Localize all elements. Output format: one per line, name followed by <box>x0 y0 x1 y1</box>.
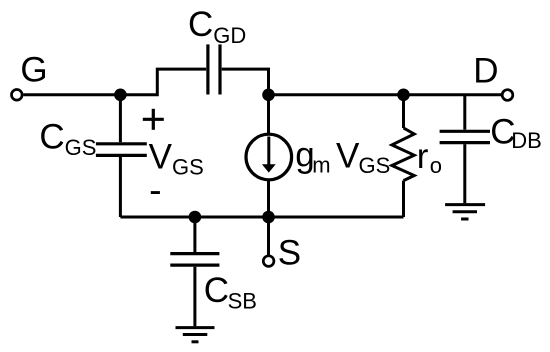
wire: C_GS to bottom rail <box>119 157 122 217</box>
node: source right (S tap) <box>262 211 275 224</box>
wire: current source bottom stub <box>267 180 270 217</box>
current source U1 circle <box>246 134 292 180</box>
node: drain right (resistor top) <box>397 89 410 102</box>
terminal G <box>11 90 22 101</box>
ground (below C_DB) <box>445 205 485 219</box>
svg-text:G: G <box>20 50 47 89</box>
ground (below C_SB) <box>176 328 215 342</box>
node: gate <box>114 89 127 102</box>
polarity minus <box>151 191 160 194</box>
svg-text:D: D <box>473 52 498 91</box>
capacitor C_DB <box>440 131 490 142</box>
wire: C_GD right plate down to drain rail <box>222 69 269 95</box>
capacitor C_GS <box>96 144 147 156</box>
terminal S <box>263 256 274 267</box>
wire: C_SB to ground <box>193 267 196 327</box>
wire drain rail: node to terminal D <box>269 93 503 96</box>
wire: C_SB top stub <box>193 217 196 252</box>
node: source left (C_SB tap) <box>189 211 202 224</box>
wire: gate node down to C_GS <box>119 95 122 142</box>
wire: C_DB to ground <box>463 144 466 203</box>
wire: current source top stub <box>267 95 270 135</box>
wire bottom source rail <box>120 216 403 219</box>
capacitor C_SB <box>170 254 219 266</box>
current source arrow <box>267 137 270 166</box>
polarity plus <box>143 109 164 130</box>
capacitor C_GD <box>208 44 220 94</box>
resistor ro zigzag <box>392 128 414 181</box>
wire: resistor bottom stub <box>402 181 405 217</box>
node: drain left <box>262 89 275 102</box>
terminal D <box>502 90 513 101</box>
wire: source node to terminal S <box>267 217 270 255</box>
wire: resistor top stub <box>402 95 405 128</box>
svg-text:S: S <box>278 234 301 273</box>
wire gate: G terminal to C_GD left plate via riser <box>23 69 206 95</box>
wire: C_DB top stub <box>463 95 466 130</box>
